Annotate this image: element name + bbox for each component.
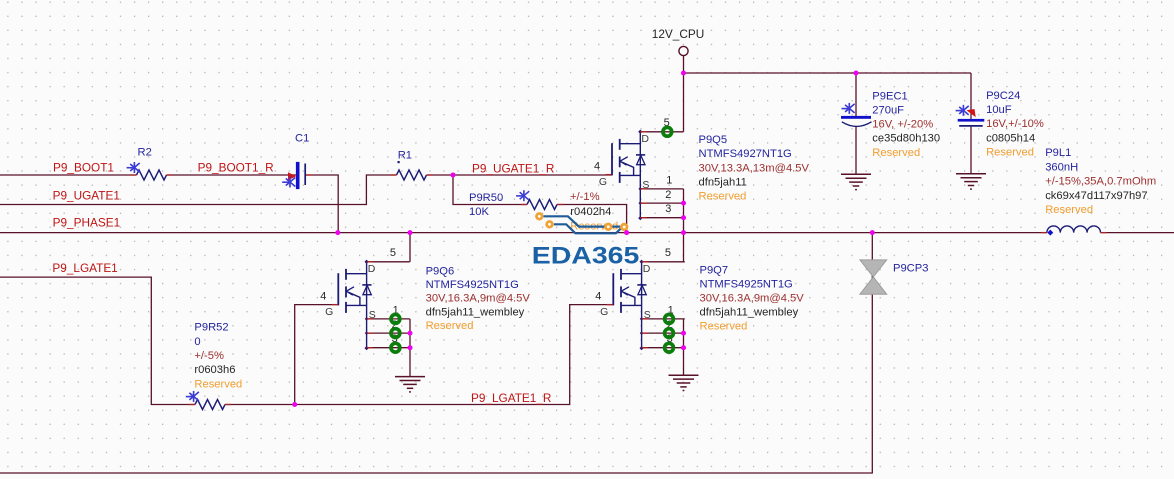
- junction 12V at Q5 drain riser: [681, 71, 686, 76]
- svg-text:Reserved: Reserved: [872, 147, 920, 159]
- svg-text:P9_BOOT1: P9_BOOT1: [53, 161, 114, 175]
- svg-text:P9Q6: P9Q6: [426, 265, 455, 277]
- wire 12V rail: [684, 56, 972, 73]
- svg-text:P9_UGATE1: P9_UGATE1: [53, 189, 120, 203]
- svg-text:P9_PHASE1: P9_PHASE1: [53, 216, 121, 230]
- wire R50 branch right: [557, 205, 627, 233]
- ground Q7: [669, 375, 699, 390]
- wire Q7 source to ground: [683, 319, 685, 375]
- svg-text:ck69x47d117x97h97: ck69x47d117x97h97: [1045, 190, 1147, 202]
- via donut Q7 pin1: [665, 315, 674, 324]
- svg-text:Reserved: Reserved: [426, 320, 474, 332]
- svg-text:NTMFS4925NT1G: NTMFS4925NT1G: [700, 279, 793, 291]
- svg-text:270uF: 270uF: [872, 104, 904, 116]
- svg-text:16V, +/-20%: 16V, +/-20%: [872, 118, 933, 130]
- svg-text:+/-15%,35A,0.7mOhm: +/-15%,35A,0.7mOhm: [1045, 176, 1156, 188]
- via donut Q6 pin2: [391, 329, 400, 338]
- ground Q6: [395, 377, 425, 392]
- capacitor C1: [296, 162, 305, 189]
- wire P9_BOOT1: [0, 174, 137, 176]
- wire R50 branch left: [453, 175, 527, 205]
- svg-text:30V,13.3A,13m@4.5V: 30V,13.3A,13m@4.5V: [699, 162, 810, 174]
- wire Q5 source to PHASE: [683, 189, 685, 233]
- svg-text:P9_BOOT1_R: P9_BOOT1_R: [198, 161, 274, 175]
- svg-text:Reserved: Reserved: [700, 321, 748, 333]
- svg-text:NTMFS4925NT1G: NTMFS4925NT1G: [426, 279, 519, 291]
- red arrow marker P9C24: [967, 109, 976, 117]
- junction Q7 source pin3: [681, 345, 686, 350]
- wire P9_BOOT1_R: [167, 174, 296, 176]
- wire P9_UGATE1_R: [427, 174, 612, 176]
- blue star marker P9R50: [516, 190, 529, 201]
- wire P9_LGATE1_R: [225, 305, 613, 405]
- red arrow marker C1: [288, 172, 296, 180]
- svg-text:R1: R1: [398, 150, 412, 162]
- ground P9C24: [956, 174, 986, 189]
- svg-text:+/-1%: +/-1%: [570, 191, 600, 203]
- svg-text:R2: R2: [138, 147, 152, 159]
- svg-text:Reserved: Reserved: [1045, 204, 1093, 216]
- svg-text:ce35d80h130: ce35d80h130: [872, 133, 940, 145]
- svg-text:P9_UGATE1_R: P9_UGATE1_R: [472, 161, 554, 175]
- svg-text:P9R50: P9R50: [469, 192, 503, 204]
- svg-text:EDA365: EDA365: [532, 243, 640, 270]
- svg-text:+/-5%: +/-5%: [194, 350, 224, 362]
- via donut Q5 drain: [663, 127, 672, 136]
- svg-text:0: 0: [194, 336, 200, 348]
- wire P9_UGATE1: [0, 175, 397, 205]
- junction LGATE1_R at Q6 gate riser: [292, 402, 297, 407]
- svg-text:30V,16.3A,9m@4.5V: 30V,16.3A,9m@4.5V: [700, 293, 805, 305]
- wire P9_LGATE1: [0, 277, 195, 404]
- svg-text:P9Q7: P9Q7: [700, 265, 729, 277]
- diode P9CP3: [860, 260, 887, 294]
- svg-text:dfn5jah11_wembley: dfn5jah11_wembley: [426, 307, 525, 319]
- blue star marker C1: [282, 177, 295, 188]
- svg-text:360nH: 360nH: [1045, 161, 1078, 173]
- junction PHASE at C1: [335, 230, 340, 235]
- svg-text:P9Q5: P9Q5: [699, 134, 728, 146]
- junction PHASE at Q5 source / Q7 drain: [681, 230, 686, 235]
- svg-text:c0805h14: c0805h14: [986, 132, 1035, 144]
- resistor P9R52: [195, 400, 225, 410]
- transistor Q6: [320, 247, 410, 350]
- inductor P9L1: [1047, 226, 1101, 236]
- power port 12V_CPU: [679, 46, 688, 55]
- svg-text:Reserved: Reserved: [986, 147, 1034, 159]
- wire Q6 gate riser: [295, 305, 339, 405]
- wire Q7 drain to PHASE: [683, 233, 685, 262]
- via donut Q6 pin3: [391, 343, 400, 352]
- junction Q6 source pin3: [408, 345, 413, 350]
- svg-text:P9_LGATE1_R: P9_LGATE1_R: [471, 391, 551, 405]
- pin lead highlights (red): [131, 175, 1107, 405]
- resistor R1: [397, 170, 427, 180]
- svg-text:P9_LGATE1: P9_LGATE1: [52, 261, 117, 275]
- blue star marker R2: [127, 162, 140, 173]
- wire Q6 drain to PHASE: [409, 233, 411, 262]
- capacitor P9C24: [958, 73, 985, 174]
- svg-text:P9EC1: P9EC1: [872, 90, 907, 102]
- wire Q5 drain to 12V: [683, 73, 685, 132]
- svg-text:10uF: 10uF: [986, 104, 1012, 116]
- svg-text:dfn5jah11_wembley: dfn5jah11_wembley: [700, 307, 799, 319]
- wire Q6 source to ground: [409, 319, 411, 377]
- blue star marker P9R52: [186, 391, 199, 402]
- svg-text:dfn5jah11: dfn5jah11: [699, 177, 747, 189]
- via donut Q7 pin2: [665, 329, 674, 338]
- wire PHASE right of inductor: [1101, 232, 1174, 234]
- junction PHASE at R50: [624, 230, 629, 235]
- junction UGATE1_R at R50 branch: [451, 173, 456, 178]
- transistor Q5: [594, 117, 684, 220]
- svg-text:12V_CPU: 12V_CPU: [652, 27, 704, 41]
- ground P9EC1: [841, 174, 871, 189]
- svg-text:P9R52: P9R52: [194, 322, 228, 334]
- svg-text:P9C24: P9C24: [986, 90, 1020, 102]
- blue star marker P9C24: [956, 105, 969, 116]
- svg-text:P9CP3: P9CP3: [893, 263, 928, 275]
- wire PHASE to bottom rail via P9CP3: [0, 233, 872, 473]
- junction Q6 source pin2: [408, 331, 413, 336]
- svg-text:r0603h6: r0603h6: [194, 364, 235, 376]
- via donut Q7 pin3: [665, 343, 674, 352]
- resistor P9R50: [527, 200, 557, 210]
- svg-text:Reserved: Reserved: [699, 190, 747, 202]
- via donut Q6 pin1: [391, 315, 400, 324]
- resistor R2: [137, 170, 167, 180]
- blue star marker P9EC1: [842, 103, 855, 114]
- svg-text:10K: 10K: [469, 206, 489, 218]
- capacitor P9EC1: [841, 73, 872, 174]
- junction Q5 source pin3: [681, 215, 686, 220]
- junction Q5 source pin2: [681, 201, 686, 206]
- pin dot R1: [398, 161, 400, 163]
- svg-text:C1: C1: [295, 133, 309, 145]
- wire P9_PHASE1: [0, 232, 1047, 234]
- junction PHASE at P9CP3: [870, 230, 875, 235]
- svg-text:16V,+/-10%: 16V,+/-10%: [986, 118, 1044, 130]
- junction PHASE at Q6 drain: [408, 230, 413, 235]
- junction 12V at P9EC1: [854, 71, 859, 76]
- svg-text:Reserved: Reserved: [194, 378, 242, 390]
- transistor Q7: [595, 247, 685, 350]
- svg-text:r0402h4: r0402h4: [570, 206, 611, 218]
- wire C1 to PHASE: [306, 175, 338, 233]
- EDA365 watermark logo: [537, 214, 628, 234]
- junction Q7 source pin2: [681, 331, 686, 336]
- svg-text:P9L1: P9L1: [1045, 147, 1071, 159]
- svg-text:30V,16.3A,9m@4.5V: 30V,16.3A,9m@4.5V: [426, 293, 531, 305]
- svg-text:NTMFS4927NT1G: NTMFS4927NT1G: [699, 148, 792, 160]
